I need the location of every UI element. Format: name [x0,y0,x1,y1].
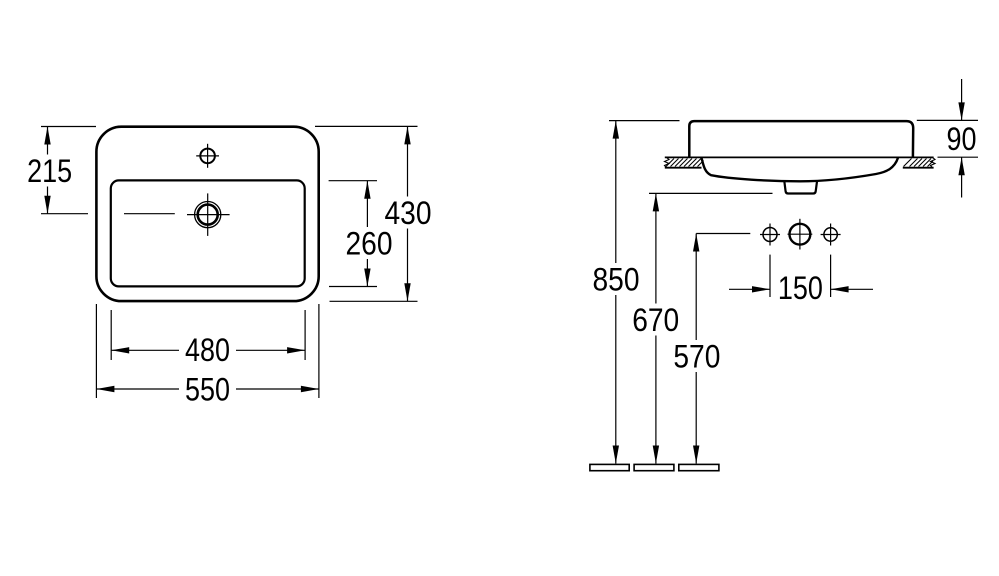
counter top line (through rim) [665,156,934,158]
svg-text:850: 850 [593,261,640,297]
dimension 550 (outer width) [96,304,319,407]
water level line (plan view) [124,213,175,215]
floor line segment 3 [679,464,719,470]
floor line segment 2 [634,464,674,470]
dimension 670 (trap height above floor) [632,193,773,463]
bowl profile (side view) [702,158,899,182]
drain hole (plan view) [187,193,230,236]
faucet hole (plan view) [196,144,219,168]
dimension 480 (inner width) [111,310,305,368]
dimension 260 (inner depth) [329,181,393,287]
svg-text:260: 260 [346,225,393,261]
svg-text:150: 150 [778,270,823,306]
svg-text:550: 550 [185,371,230,407]
counter break zigzag right [931,157,936,167]
dimension 150 (outer holes spacing) [729,255,873,306]
svg-text:90: 90 [947,121,977,157]
basin outer rim (plan view) [96,127,318,301]
faucet hole center large (side view) [788,219,813,250]
faucet hole right small (side view) [821,224,841,246]
faucet height reference line [696,233,750,235]
svg-text:215: 215 [27,153,72,189]
basin inner bowl edge (plan view) [111,180,305,286]
counter bottom line left [665,167,702,169]
counter hatch right [904,159,934,167]
dimension 215 (left) [26,127,96,214]
dimension 570 (faucet holes above floor) [673,234,721,464]
basin rim profile (side view) [689,121,913,158]
svg-text:670: 670 [632,302,679,338]
svg-text:480: 480 [185,332,230,368]
dimension 90 (rim above counter) [917,79,978,198]
counter hatch left [666,159,704,167]
counter bottom line right [903,167,934,169]
svg-text:570: 570 [673,338,720,374]
faucet hole left small (side view) [760,224,780,246]
dimension 430 (right of plan view) [315,126,432,301]
floor line segment 1 [590,464,629,470]
drain trap (side view) [784,181,817,194]
counter break zigzag left [665,157,670,167]
dimension 850 (rim height above floor) [592,121,680,464]
